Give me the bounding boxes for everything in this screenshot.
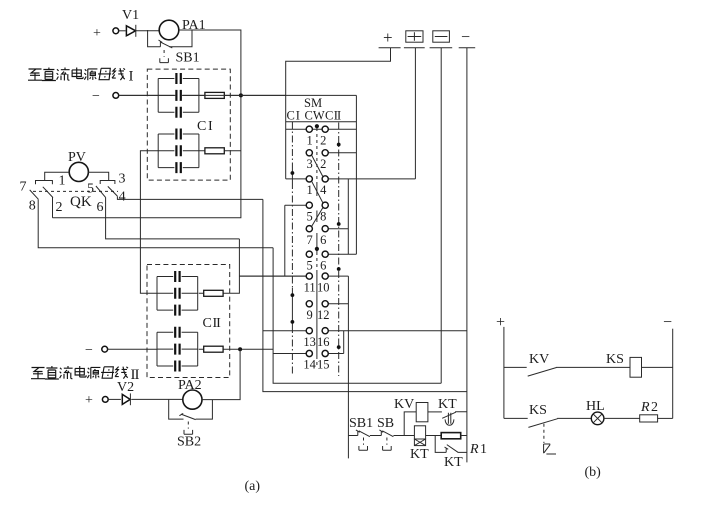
QK blades — [30, 186, 118, 199]
KS delayed-contact symbol — [543, 424, 545, 443]
svg-text:C: C — [203, 316, 212, 331]
KT contact bypass of R1 — [435, 436, 448, 453]
QK terminal wires — [38, 199, 273, 248]
svg-text:I: I — [208, 119, 213, 134]
svg-text:HL: HL — [586, 399, 605, 414]
svg-text:(b): (b) — [585, 465, 602, 480]
svg-text:I: I — [296, 109, 300, 123]
svg-text:1: 1 — [480, 442, 487, 457]
svg-text:C: C — [287, 109, 295, 123]
svg-text:3: 3 — [119, 172, 126, 187]
ammeter PA1 — [159, 20, 179, 40]
QK linkage (dashed) — [33, 190, 118, 192]
svg-text:SB1: SB1 — [349, 416, 373, 431]
svg-text:KS: KS — [529, 403, 547, 418]
svg-text:(a): (a) — [245, 479, 261, 494]
phantom line C II column (dash-dot) — [338, 123, 340, 377]
svg-text:4: 4 — [320, 183, 327, 197]
resistor R2 — [640, 415, 658, 422]
至直流电源母线 II — [31, 368, 45, 379]
svg-text:−: − — [85, 343, 93, 358]
svg-text:KT: KT — [444, 455, 463, 470]
svg-text:KT: KT — [438, 397, 457, 412]
switch QK jaw B — [100, 181, 115, 185]
svg-text:6: 6 — [97, 200, 104, 215]
svg-text:II: II — [334, 109, 341, 123]
svg-text:2: 2 — [651, 400, 658, 415]
svg-text:QK: QK — [70, 194, 92, 210]
svg-text:5: 5 — [306, 209, 312, 223]
svg-text:PA2: PA2 — [178, 378, 202, 393]
svg-text:12: 12 — [317, 308, 330, 322]
SM contact row 7 : 11-10 — [239, 275, 348, 277]
SM contact row 4 : 5-8 — [285, 204, 306, 206]
svg-text:−: − — [92, 89, 100, 104]
svg-text:6: 6 — [320, 233, 326, 247]
svg-text:KS: KS — [606, 352, 624, 367]
svg-text:−: − — [461, 29, 470, 46]
SM bridge diagonals — [312, 155, 323, 226]
wire — [119, 94, 159, 96]
svg-text:13: 13 — [303, 335, 316, 349]
SM contact row 6 : 5-6 — [328, 253, 356, 255]
main relay row wire — [349, 435, 358, 437]
SM contact row 8 : 9-12 — [328, 303, 348, 305]
wire bus: CII bank1 to SM row7 — [239, 275, 306, 277]
svg-text:9: 9 — [306, 308, 312, 322]
terminal boxed-plus — [406, 31, 423, 42]
svg-text:11: 11 — [304, 280, 316, 294]
SM block header — [119, 95, 357, 121]
capacitor bank C I lower — [158, 128, 199, 173]
SM inter-row link wires (right side) — [347, 179, 349, 254]
svg-text:C: C — [197, 119, 206, 134]
capacitor bank C I upper — [158, 73, 199, 118]
phantom line C I column (dash-dot) — [291, 122, 293, 168]
SM contact row 9 : 13-16 — [263, 330, 467, 332]
wire bank2 left down-feed — [140, 151, 158, 293]
SM contact row 3 : 1-4 — [286, 178, 416, 180]
svg-text:KV: KV — [529, 352, 549, 367]
svg-text:+: + — [85, 393, 93, 408]
svg-text:V2: V2 — [117, 380, 134, 395]
capacitor bank C II upper — [157, 271, 198, 316]
svg-text:7: 7 — [20, 180, 27, 195]
SM contact row 5 : 7-6 — [328, 228, 348, 230]
terminal boxed-minus — [433, 31, 450, 42]
svg-text:+: + — [383, 28, 393, 47]
pushbutton SB2 bypass — [169, 400, 213, 420]
capacitor box C I (dashed) — [147, 69, 230, 180]
svg-text:R: R — [469, 442, 479, 457]
svg-text:8: 8 — [29, 199, 36, 214]
svg-text:SB: SB — [377, 416, 394, 431]
PV arms — [45, 172, 109, 180]
svg-text:4: 4 — [119, 190, 126, 205]
svg-text:SB2: SB2 — [177, 435, 201, 450]
pushbutton SB1 bypass — [148, 30, 192, 47]
time relay coil KT — [414, 426, 425, 439]
capacitor box C II (dashed) — [147, 265, 230, 378]
svg-text:16: 16 — [317, 335, 330, 349]
resistor R1 — [441, 433, 461, 439]
phantom line CW column — [316, 128, 318, 183]
svg-text:KV: KV — [394, 397, 414, 412]
svg-text:2: 2 — [320, 133, 326, 147]
switch QK jaw A — [36, 181, 53, 185]
junction dot — [239, 93, 243, 97]
svg-text:CW: CW — [305, 109, 325, 123]
svg-text:3: 3 — [306, 157, 312, 171]
svg-text:1: 1 — [59, 173, 66, 188]
svg-text:2: 2 — [320, 157, 326, 171]
svg-text:C: C — [325, 109, 333, 123]
svg-text:−: − — [663, 314, 672, 331]
SM contact row 10 : 14-15 — [273, 353, 344, 355]
svg-text:6: 6 — [320, 258, 326, 272]
svg-text:+: + — [93, 26, 101, 41]
fuse FU1 — [199, 94, 286, 96]
svg-text:15: 15 — [317, 358, 330, 372]
svg-text:14: 14 — [303, 358, 316, 372]
svg-text:5: 5 — [306, 258, 312, 272]
svg-text:PA1: PA1 — [182, 18, 206, 33]
svg-text:10: 10 — [317, 280, 330, 294]
fuse FU2 — [199, 150, 241, 152]
wire — [119, 30, 126, 32]
wire PA1 right then down to fuse junction — [53, 30, 241, 218]
capacitor bank C II lower — [157, 327, 198, 372]
svg-text:2: 2 — [56, 200, 63, 215]
至直流电源母线 I (hand-drawn hanzi) — [28, 69, 42, 80]
svg-text:1: 1 — [306, 183, 312, 197]
svg-text:7: 7 — [306, 233, 312, 247]
wire — [136, 30, 159, 32]
svg-text:KT: KT — [410, 447, 429, 462]
ammeter PA2 — [183, 390, 202, 409]
svg-text:R: R — [640, 400, 650, 415]
SM contact row 1 : 1-2 — [286, 128, 357, 130]
svg-text:SB1: SB1 — [176, 51, 200, 66]
svg-text:V1: V1 — [122, 8, 139, 23]
SM link row4-row7 (left) — [284, 205, 286, 276]
bottom frame wires — [273, 248, 441, 384]
svg-text:1: 1 — [306, 133, 312, 147]
SM contact row 2 : 3-2 — [328, 152, 356, 154]
svg-text:I: I — [129, 69, 134, 85]
